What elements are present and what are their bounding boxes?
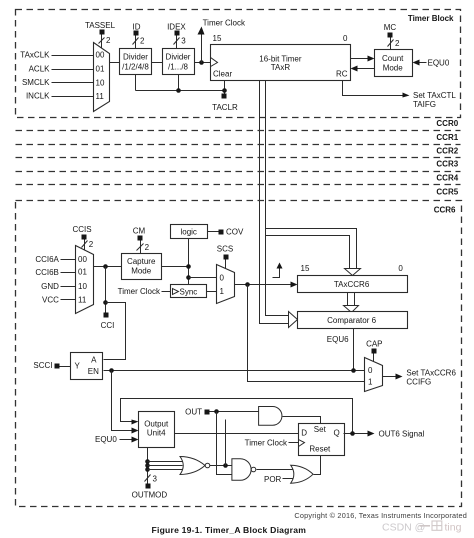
svg-text:2: 2 bbox=[145, 243, 150, 252]
node Set TAxCTL TAIFG bbox=[343, 81, 457, 109]
svg-text:EQU0: EQU0 bbox=[428, 59, 450, 68]
svg-text:CCR4: CCR4 bbox=[436, 173, 458, 182]
node GND bbox=[41, 282, 59, 291]
svg-text:VCC: VCC bbox=[42, 296, 59, 305]
wire CCI branch to latch A bbox=[104, 303, 126, 360]
wire NOR output to NAND bbox=[210, 463, 233, 468]
node SMCLK bbox=[22, 78, 50, 87]
svg-text:Q: Q bbox=[333, 429, 339, 438]
svg-text:Reset: Reset bbox=[309, 445, 331, 454]
wire ACLK to mux bbox=[52, 69, 94, 71]
svg-text:EQU0: EQU0 bbox=[95, 435, 117, 444]
svg-text:CCR1: CCR1 bbox=[436, 133, 458, 142]
wire RC to count mode bbox=[351, 56, 375, 62]
svg-text:11: 11 bbox=[96, 92, 105, 101]
svg-text:Mode: Mode bbox=[131, 267, 152, 276]
svg-text:15: 15 bbox=[301, 264, 310, 273]
node CCI6B bbox=[35, 268, 59, 277]
wire EN down to output unit bbox=[112, 371, 133, 431]
node OUT tap bbox=[185, 407, 258, 416]
node Set TAxCCR6 CCIFG output bbox=[383, 368, 457, 386]
svg-text:01: 01 bbox=[78, 268, 87, 277]
svg-text:CCIS: CCIS bbox=[72, 225, 91, 234]
node ACLK bbox=[29, 65, 51, 74]
svg-text:Timer Clock: Timer Clock bbox=[203, 19, 246, 28]
svg-text:3: 3 bbox=[181, 37, 186, 46]
svg-text:RC: RC bbox=[336, 69, 348, 78]
copyright line bbox=[294, 511, 467, 520]
capture edge symbol bbox=[273, 263, 283, 278]
gate NAND bbox=[232, 459, 256, 481]
wires OUTMOD taps to NOR gate bbox=[148, 462, 185, 470]
divider IDEX /1.../8 bbox=[163, 49, 195, 75]
wire divider1 to divider2 bbox=[152, 62, 163, 64]
bus timer value left line bbox=[260, 81, 289, 324]
wire GND to mux bbox=[61, 286, 76, 288]
wire CCI6A to mux bbox=[61, 259, 76, 261]
svg-text:2: 2 bbox=[395, 39, 400, 48]
svg-text:CCR2: CCR2 bbox=[436, 146, 458, 155]
svg-text:TASSEL: TASSEL bbox=[85, 21, 116, 30]
wire capture signal to CAP mux 1 bbox=[248, 285, 365, 382]
svg-text:Timer Clock: Timer Clock bbox=[245, 438, 288, 447]
node CCI6A bbox=[35, 255, 59, 264]
svg-text:Set TAxCTL: Set TAxCTL bbox=[413, 91, 456, 100]
svg-text:11: 11 bbox=[78, 296, 87, 305]
svg-text:CCI6A: CCI6A bbox=[35, 255, 59, 264]
gate AND set bbox=[259, 407, 282, 426]
svg-text:IDEX: IDEX bbox=[167, 22, 186, 31]
wire output unit to D input bbox=[175, 433, 299, 435]
node CCIS control bbox=[72, 225, 93, 250]
node Timer Clock sync bbox=[118, 287, 171, 296]
svg-text:10: 10 bbox=[96, 78, 105, 87]
wire VCC to mux bbox=[61, 299, 76, 301]
svg-text:15: 15 bbox=[213, 34, 222, 43]
svg-text:EQU6: EQU6 bbox=[327, 335, 349, 344]
svg-text:00: 00 bbox=[96, 51, 105, 60]
svg-text:Timer Block: Timer Block bbox=[408, 14, 454, 23]
svg-text:ting: ting bbox=[445, 522, 462, 534]
svg-text:MC: MC bbox=[384, 23, 397, 32]
svg-text:A: A bbox=[91, 355, 97, 364]
CCR3 row bbox=[16, 160, 461, 172]
node INCLK bbox=[26, 92, 50, 101]
register TAxCCR6 bbox=[298, 276, 408, 293]
CCR6 dashed box bbox=[16, 201, 462, 507]
pin 15 of TAxCCR6 bbox=[301, 264, 310, 273]
node EQU0 into output unit bbox=[95, 435, 139, 444]
wire mux to divider1 bbox=[110, 62, 120, 64]
svg-text:CCIFG: CCIFG bbox=[406, 378, 431, 387]
wire OUT feedback loop bbox=[121, 399, 353, 434]
Timer Block dashed box bbox=[16, 10, 461, 118]
CCR4 row bbox=[16, 173, 461, 184]
comparator 6 block bbox=[298, 312, 408, 329]
svg-text:D: D bbox=[301, 428, 307, 437]
svg-text:2: 2 bbox=[140, 37, 145, 46]
svg-text:TAxR: TAxR bbox=[271, 63, 291, 72]
bus branch to TAxCCR6 inner bbox=[266, 236, 350, 269]
node TASSEL control bbox=[85, 21, 116, 49]
svg-text:0: 0 bbox=[368, 366, 373, 375]
svg-text:10: 10 bbox=[78, 282, 87, 291]
svg-text:INCLK: INCLK bbox=[26, 92, 50, 101]
svg-text:Comparator 6: Comparator 6 bbox=[327, 316, 376, 325]
svg-text:Capture: Capture bbox=[127, 257, 156, 266]
svg-text:OUTMOD: OUTMOD bbox=[132, 491, 168, 500]
node EQU6 bbox=[327, 329, 354, 371]
node COV bbox=[208, 228, 245, 237]
wire NOR branch up to AND input bbox=[225, 420, 227, 466]
node OUTMOD bbox=[132, 448, 168, 500]
svg-text:Count: Count bbox=[382, 54, 404, 63]
svg-text:3: 3 bbox=[153, 475, 158, 484]
node CM control bbox=[133, 227, 150, 254]
svg-text:SCCI: SCCI bbox=[33, 361, 52, 370]
svg-text:ID: ID bbox=[133, 22, 141, 31]
svg-text:Timer Clock: Timer Clock bbox=[118, 287, 161, 296]
CCR0 row bbox=[16, 119, 461, 130]
wire OR to DFF reset bbox=[314, 456, 321, 475]
wire NAND to POR OR gate bbox=[257, 469, 293, 471]
svg-text:1: 1 bbox=[368, 378, 373, 387]
svg-text:TAxCCR6: TAxCCR6 bbox=[334, 280, 370, 289]
wire divider2 to timer clock input bbox=[195, 60, 211, 65]
svg-text:CCI: CCI bbox=[101, 321, 115, 330]
wire count mode to RC bbox=[351, 66, 375, 72]
svg-text:POR: POR bbox=[264, 475, 282, 484]
node IDEX control bbox=[167, 22, 186, 48]
svg-text:Figure 19-1. Timer_A Block Dia: Figure 19-1. Timer_A Block Diagram bbox=[152, 525, 307, 535]
gate OR reset bbox=[291, 465, 313, 483]
count mode block bbox=[375, 50, 413, 77]
wire AND output to DFF set bbox=[283, 417, 321, 424]
svg-text:01: 01 bbox=[96, 65, 105, 74]
mux SCS selector bbox=[217, 265, 235, 304]
svg-text:Y: Y bbox=[75, 362, 81, 371]
mux CCIS input selector bbox=[76, 246, 94, 314]
pin 15 bbox=[213, 34, 222, 43]
node MC control bbox=[384, 23, 400, 50]
svg-text:Divider: Divider bbox=[123, 52, 148, 61]
wire capture mode to logic and mux bbox=[162, 239, 217, 285]
svg-text:Set TAxCCR6: Set TAxCCR6 bbox=[406, 368, 456, 377]
flipflop D Set Q Reset bbox=[299, 424, 345, 456]
wire TAxCLK to mux bbox=[52, 55, 94, 57]
node CAP control bbox=[366, 340, 382, 362]
svg-text:Mode: Mode bbox=[383, 63, 404, 72]
svg-text:2: 2 bbox=[89, 240, 94, 249]
node SCCI bbox=[33, 361, 70, 370]
wire OUT down to NAND input bbox=[217, 412, 233, 475]
svg-text:CCI6B: CCI6B bbox=[35, 268, 59, 277]
bus branch to TAxCCR6 outer bbox=[266, 229, 357, 269]
hollow arrow into comparator bbox=[289, 312, 298, 328]
svg-text:CCR0: CCR0 bbox=[436, 119, 458, 128]
svg-text:1: 1 bbox=[220, 287, 225, 296]
svg-text:Set: Set bbox=[314, 425, 327, 434]
node EQU0 into count mode bbox=[413, 59, 450, 68]
node Timer Clock dff bbox=[245, 438, 299, 447]
CCR5 row bbox=[436, 187, 458, 196]
figure caption bbox=[152, 525, 307, 535]
CCR2 row bbox=[16, 146, 461, 157]
node CCI tap bbox=[101, 267, 115, 331]
capture mode block bbox=[122, 254, 162, 280]
svg-text:OUT: OUT bbox=[185, 407, 202, 416]
sync block bbox=[171, 285, 207, 298]
wire latch EN to CAP mux bbox=[104, 368, 365, 373]
wire INCLK to mux bbox=[52, 96, 94, 98]
mux TASSEL clock-source selector bbox=[94, 43, 110, 112]
svg-text:CCR6: CCR6 bbox=[434, 206, 456, 215]
svg-text:0: 0 bbox=[343, 34, 348, 43]
svg-text:Sync: Sync bbox=[180, 287, 198, 296]
pin 0 bbox=[343, 34, 348, 43]
svg-text:CM: CM bbox=[133, 227, 146, 236]
wire mux output to TAxCCR6 bbox=[235, 282, 298, 288]
node Timer Clock tap bbox=[198, 19, 246, 63]
divider ID /1/2/4/8 bbox=[120, 49, 152, 75]
svg-text:Copyright © 2016, Texas Instru: Copyright © 2016, Texas Instruments Inco… bbox=[294, 511, 467, 520]
wire divider bottoms to clear bbox=[136, 75, 225, 93]
node POR bbox=[264, 475, 294, 484]
arrow into output unit input 1 bbox=[132, 420, 139, 425]
CCR1 row bbox=[16, 133, 461, 145]
hollow arrow into TAxCCR6 bbox=[345, 269, 361, 276]
svg-text:0: 0 bbox=[220, 273, 225, 282]
svg-text:2: 2 bbox=[106, 36, 111, 45]
logic block bbox=[171, 225, 208, 239]
svg-text:CCR5: CCR5 bbox=[436, 187, 458, 196]
svg-text:GND: GND bbox=[41, 282, 59, 291]
svg-text:CCR3: CCR3 bbox=[436, 160, 458, 169]
svg-text:logic: logic bbox=[180, 228, 196, 237]
svg-text:TAxCLK: TAxCLK bbox=[20, 51, 50, 60]
node VCC bbox=[42, 296, 59, 305]
latch A EN bbox=[71, 353, 103, 380]
pin 0 of TAxCCR6 bbox=[398, 264, 403, 273]
svg-text:TAIFG: TAIFG bbox=[413, 100, 436, 109]
gate NOR outmod bbox=[180, 457, 210, 475]
node OUT6 Signal bbox=[344, 430, 425, 439]
svg-text:CSDN @: CSDN @ bbox=[382, 522, 425, 534]
node SCS control bbox=[217, 244, 233, 268]
svg-text:ACLK: ACLK bbox=[29, 65, 51, 74]
wire SMCLK to mux bbox=[52, 82, 94, 84]
hollow arrow TAxCCR6 to comparator bbox=[344, 293, 359, 313]
wire CCI6B to mux bbox=[61, 272, 76, 274]
watermark bbox=[382, 521, 462, 534]
svg-text:COV: COV bbox=[226, 228, 244, 237]
timer register 16-bit Timer TAxR bbox=[211, 45, 351, 81]
svg-text:TACLR: TACLR bbox=[212, 103, 238, 112]
node TAxCLK bbox=[20, 51, 50, 60]
svg-text:/1/2/4/8: /1/2/4/8 bbox=[122, 63, 149, 72]
node ID control bbox=[133, 22, 146, 48]
svg-text:Unit4: Unit4 bbox=[147, 429, 166, 438]
svg-text:Output: Output bbox=[144, 419, 169, 428]
arrow into output unit input 2 bbox=[132, 428, 139, 434]
wire sync to mux 1 input bbox=[207, 291, 217, 293]
svg-text:Clear: Clear bbox=[213, 69, 232, 78]
svg-text:/1.../8: /1.../8 bbox=[168, 63, 189, 72]
svg-text:Divider: Divider bbox=[166, 52, 191, 61]
svg-text:OUT6 Signal: OUT6 Signal bbox=[379, 430, 425, 439]
output unit block bbox=[139, 412, 175, 448]
svg-text:SMCLK: SMCLK bbox=[22, 78, 50, 87]
bus timer value right line bbox=[266, 81, 289, 316]
svg-text:SCS: SCS bbox=[217, 244, 233, 253]
wire mux to capture mode bbox=[94, 264, 122, 269]
mux CAP selector bbox=[365, 358, 383, 392]
svg-text:CAP: CAP bbox=[366, 340, 382, 349]
svg-text:00: 00 bbox=[78, 255, 87, 264]
svg-text:EN: EN bbox=[88, 367, 99, 376]
node TACLR bbox=[212, 81, 238, 113]
svg-text:0: 0 bbox=[398, 264, 403, 273]
